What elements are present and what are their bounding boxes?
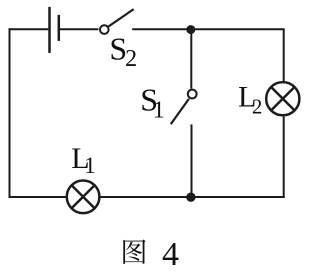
svg-text:1: 1 [153, 98, 165, 124]
svg-text:2: 2 [252, 95, 263, 119]
svg-text:4: 4 [162, 236, 179, 272]
svg-text:2: 2 [125, 46, 137, 72]
svg-text:1: 1 [84, 153, 96, 178]
